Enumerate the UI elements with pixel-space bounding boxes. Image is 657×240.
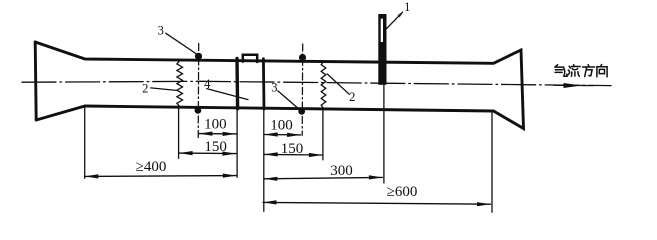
svg-text:≥400: ≥400 — [136, 159, 167, 175]
svg-text:150: 150 — [204, 139, 227, 155]
svg-text:150: 150 — [281, 141, 304, 157]
svg-text:3: 3 — [271, 80, 277, 94]
svg-text:1: 1 — [404, 0, 410, 14]
svg-text:300: 300 — [330, 163, 353, 179]
svg-text:3: 3 — [158, 23, 164, 37]
svg-text:100: 100 — [270, 118, 293, 134]
svg-text:≥600: ≥600 — [387, 184, 418, 200]
svg-text:100: 100 — [204, 116, 227, 132]
svg-text:4: 4 — [204, 77, 211, 91]
svg-text:2: 2 — [142, 82, 148, 96]
svg-text:2: 2 — [349, 90, 355, 104]
